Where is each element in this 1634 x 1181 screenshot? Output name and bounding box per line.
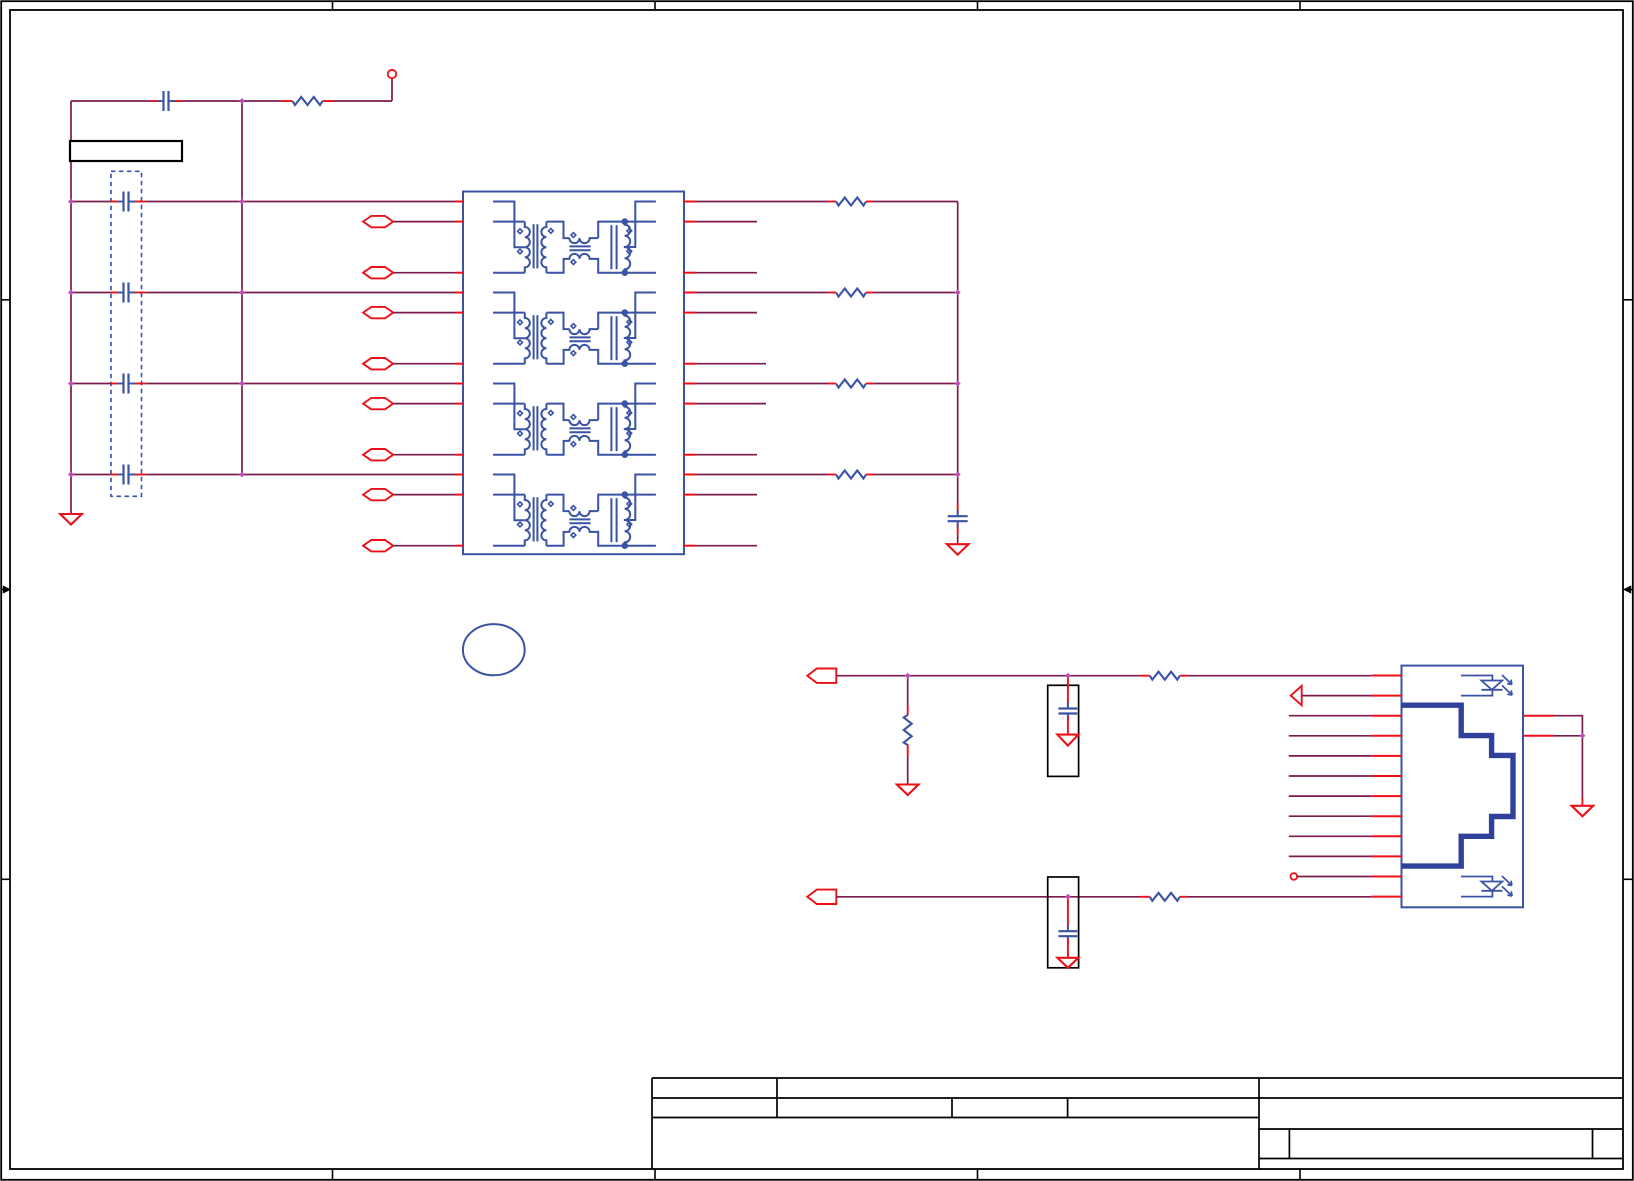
polarity dots primary	[518, 229, 523, 234]
port LED1 net	[807, 669, 836, 683]
wire RX4- stub	[696, 545, 758, 547]
pin stubs left	[456, 201, 464, 203]
port TX2-	[363, 358, 393, 369]
resistor R-led2	[1150, 893, 1180, 901]
wire RX2- stub	[696, 363, 767, 365]
wire LED1 row	[836, 675, 1140, 677]
resistor R-pulldown	[904, 715, 912, 745]
capacitor C4	[117, 474, 123, 476]
wire RX3+ stub	[696, 403, 767, 405]
left vertical bus	[70, 101, 72, 514]
junction ct-mid ch2	[239, 290, 245, 296]
junction ct-left ch2	[68, 290, 74, 296]
connector J1 pin stubs	[1371, 676, 1402, 897]
wire J1 right bottom	[1523, 735, 1554, 737]
no-connect pin11	[1291, 873, 1298, 880]
resistor R-term ch2	[836, 289, 866, 297]
junction output bottom	[622, 269, 629, 276]
resistor R-led2 leads	[1140, 896, 1150, 898]
transformer secondary winding	[541, 222, 546, 273]
junction cap1 tap	[1065, 673, 1071, 679]
wire center-tap net ch2	[71, 292, 111, 294]
wire ct-left internal	[493, 202, 525, 248]
wires J1 pins 3-10	[1289, 716, 1371, 857]
capacitor C-led1 module box	[1048, 685, 1079, 776]
ground left bus	[60, 514, 82, 525]
resistor R-pulldown leads	[907, 706, 909, 716]
wire RX2+ stub	[696, 312, 758, 314]
capacitor C-top	[157, 100, 163, 102]
resistor R-term ch4 leads	[828, 474, 836, 476]
wire RX4+ stub	[696, 494, 758, 496]
capacitor C3	[117, 383, 123, 385]
junction ct-left ch3	[68, 381, 74, 387]
wire ct-right net ch3	[696, 383, 829, 385]
port TX1-	[363, 267, 393, 278]
resistor R-term ch1 leads	[828, 201, 836, 203]
wire choke to output transformer	[598, 222, 656, 239]
capacitor C-led1 lead top	[1067, 676, 1069, 706]
wire TX1- to T1	[393, 272, 455, 274]
capacitor C2	[117, 292, 123, 294]
label box (blank)	[70, 141, 182, 161]
transformer core	[533, 224, 535, 268]
wire TX3- to T1	[393, 454, 455, 456]
capacitor C4 leads	[111, 474, 120, 476]
wire center-tap net ch4	[71, 474, 111, 476]
wire secondary to choke top	[546, 222, 569, 239]
wire to ground term	[957, 535, 959, 545]
junction top bus	[239, 98, 245, 104]
capacitor C-top leads	[151, 100, 160, 102]
wire TX3+ to T1	[393, 403, 455, 405]
wire tx- internal	[493, 272, 525, 274]
capacitor C-led2 lead bottom	[1067, 939, 1069, 958]
wire pulldown top	[907, 676, 909, 706]
port TX1+	[363, 216, 393, 227]
border mid-left arrow	[2, 587, 10, 593]
capacitor C-led1	[1067, 702, 1069, 708]
channel 3 magnetics	[456, 384, 696, 459]
ground C-led1	[1057, 735, 1078, 746]
transformer primary winding	[525, 222, 530, 273]
output transformer core	[610, 225, 612, 269]
junction cap2 tap	[1065, 894, 1071, 900]
capacitor C-term leads	[957, 503, 959, 514]
wire center-tap net ch3	[71, 383, 111, 385]
resistor R-top	[293, 97, 323, 105]
port TX2+	[363, 307, 393, 318]
channel 4 magnetics	[456, 475, 696, 550]
capacitor C1	[117, 201, 123, 203]
resistor R-top leads	[281, 100, 293, 102]
connector jack staircase	[1402, 705, 1514, 866]
wire ct-right net ch4	[696, 474, 829, 476]
wire LED2 row	[836, 896, 1140, 898]
output winding polarity dots	[627, 229, 632, 234]
wire ct-right net ch2	[696, 292, 829, 294]
termination bus vertical	[957, 202, 959, 504]
LED indicator top	[1461, 676, 1492, 681]
wire center-tap net ch1	[71, 201, 111, 203]
port TX4-	[363, 540, 393, 551]
junction ct-left ch4	[68, 472, 74, 478]
title block	[652, 1078, 1623, 1169]
resistor R-led1 leads	[1140, 675, 1150, 677]
capacitor C-led1 lead bottom	[1067, 716, 1069, 735]
LED indicator bottom	[1461, 877, 1492, 882]
wire J1 right top	[1523, 715, 1554, 717]
wire TX4- to T1	[393, 545, 455, 547]
border mid-right arrow	[1625, 587, 1633, 593]
junction ct-mid ch3	[239, 381, 245, 387]
polarity dot secondary	[548, 229, 553, 234]
resistor R-term ch2 leads	[828, 292, 836, 294]
wire TX1+ to T1	[393, 221, 455, 223]
wire RX3- stub	[696, 454, 758, 456]
capacitor C-led2 module box	[1048, 877, 1079, 968]
capacitor C1 leads	[111, 201, 120, 203]
ground shield	[1572, 806, 1594, 817]
wire pulldown bottom	[907, 756, 909, 785]
connector J1 outline	[1402, 666, 1524, 908]
port TX3+	[363, 398, 393, 409]
capacitor group dashed box	[111, 171, 142, 496]
junction bus ch2	[955, 290, 961, 296]
wire RX1- stub	[696, 272, 758, 274]
wire ct-right internal	[624, 202, 656, 248]
junction led1 pulldown	[905, 673, 911, 679]
capacitor C-term	[957, 510, 959, 516]
spare part ellipse	[463, 624, 525, 675]
junction ct-left ch1	[68, 199, 74, 205]
ground pulldown	[897, 785, 919, 796]
wire J1 pin2	[1302, 695, 1372, 697]
wire TX4+ to T1	[393, 494, 455, 496]
magnetics module T1 outline	[463, 192, 684, 555]
junction bus ch4	[955, 472, 961, 478]
wire RX1+ stub	[696, 221, 758, 223]
ground C-led2	[1057, 958, 1078, 968]
wire shield to ground	[1581, 736, 1583, 798]
choke core	[569, 245, 590, 247]
ground termination	[947, 544, 969, 555]
port to J1 pin2	[1291, 686, 1302, 705]
resistor R-term ch4	[836, 471, 866, 479]
wire J1 pin11	[1297, 876, 1371, 878]
resistor R-term ch1	[836, 198, 866, 206]
port TX3-	[363, 449, 393, 460]
junction ct-mid ch1	[239, 199, 245, 205]
resistor R-term ch3 leads	[828, 383, 836, 385]
common-mode choke winding bottom	[546, 254, 656, 273]
junction output top	[622, 218, 629, 225]
junction ct-mid ch4	[239, 472, 245, 478]
choke polarity dots	[571, 233, 576, 238]
wire tx+ internal	[493, 221, 525, 223]
port TX4+	[363, 489, 393, 500]
pin stubs right	[683, 201, 695, 203]
wire ct-right net ch1	[696, 201, 829, 203]
capacitor C-led2 lead top	[1067, 897, 1069, 929]
channel 2 magnetics	[456, 293, 696, 368]
output transformer winding	[625, 222, 631, 273]
junction bus ch3	[955, 381, 961, 387]
resistor R-term ch3	[836, 380, 866, 388]
resistor R-led1	[1150, 672, 1180, 680]
wire TX2- to T1	[393, 363, 455, 365]
port LED2 net	[807, 890, 836, 904]
junction J1 shield	[1579, 733, 1585, 739]
common-mode choke winding top	[569, 238, 598, 243]
wire TX2+ to T1	[393, 312, 455, 314]
channel 1 magnetics	[456, 202, 696, 277]
open terminal pin	[388, 70, 396, 78]
capacitor C2 leads	[111, 292, 120, 294]
wire top net	[71, 100, 151, 102]
mid vertical bus	[241, 101, 243, 475]
capacitor C-led2	[1067, 925, 1069, 931]
capacitor C3 leads	[111, 383, 120, 385]
